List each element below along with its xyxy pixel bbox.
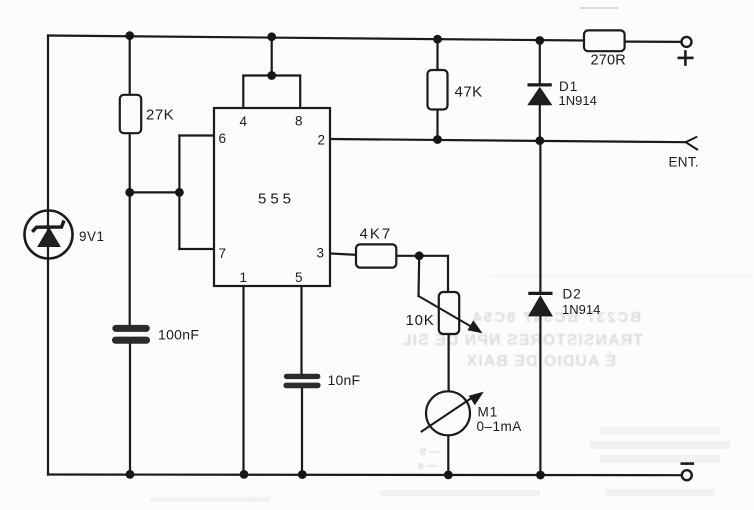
node: 4K7 / pot xyxy=(415,251,424,260)
node: bracket pins 4-8 xyxy=(267,71,276,80)
svg-text:100nF: 100nF xyxy=(158,327,199,343)
diode D2 1N914 xyxy=(528,287,600,317)
svg-text:4: 4 xyxy=(240,114,248,129)
wire: 555 top bracket pins 4 and 8 xyxy=(243,76,300,109)
wire: D2 column below to bottom rail xyxy=(539,316,541,475)
resistor R 47K xyxy=(428,70,483,110)
svg-text:10K: 10K xyxy=(406,312,435,329)
potentiometer 10K xyxy=(406,292,483,334)
svg-text:TRANSISTORES NPN DE SIL: TRANSISTORES NPN DE SIL xyxy=(401,332,643,349)
svg-text:10nF: 10nF xyxy=(328,372,361,388)
wire: 10nF to bottom rail xyxy=(301,388,303,475)
svg-text:1: 1 xyxy=(240,270,248,285)
svg-text:— 9: — 9 xyxy=(420,446,440,458)
svg-text:BC237 BC547 8C54: BC237 BC547 8C54 xyxy=(471,309,641,326)
wire: pin 5 column to 10nF xyxy=(300,286,302,374)
node: bottom rail / meter xyxy=(444,471,453,480)
node: bottom rail / 10nF xyxy=(298,470,307,479)
ENT. open arrowhead xyxy=(686,137,698,150)
wire: top rail xyxy=(48,36,584,41)
wire: ENT rail from pin 2 xyxy=(330,139,686,142)
svg-text:1N914: 1N914 xyxy=(559,93,597,108)
svg-text:M1: M1 xyxy=(478,405,499,420)
wire: 27K column below resistor to junction xyxy=(129,133,131,326)
svg-text:ENT.: ENT. xyxy=(669,155,699,170)
meter M1 xyxy=(421,391,522,435)
wire: junction link to pin6/pin7 riser xyxy=(130,191,180,193)
svg-text:555: 555 xyxy=(258,191,295,208)
node: top rail / 555 supply xyxy=(267,32,276,41)
wire: bottom rail xyxy=(48,473,682,476)
resistor R 4K7 xyxy=(356,226,396,268)
node: bottom rail / pin 1 xyxy=(240,470,249,479)
svg-text:27K: 27K xyxy=(146,107,174,124)
diode D1 1N914 xyxy=(528,79,597,108)
wire: junction to pot top xyxy=(419,256,448,292)
capacitor C 100nF xyxy=(112,325,199,344)
svg-text:9V1: 9V1 xyxy=(79,229,105,244)
svg-text:270R: 270R xyxy=(591,53,626,69)
resistor R 270R xyxy=(584,30,626,68)
svg-text:4K7: 4K7 xyxy=(360,226,393,243)
node: top rail / D1 xyxy=(535,36,544,45)
resistor R 27K xyxy=(120,95,174,133)
node: 27K column / link xyxy=(125,188,134,197)
node: ENT rail / D1-D2 xyxy=(535,136,544,145)
svg-text:8: 8 xyxy=(295,114,303,129)
faint scan dash top xyxy=(580,7,618,9)
wire: D2 column above xyxy=(539,141,541,294)
wire: D1 column above xyxy=(539,41,541,86)
wire: D1 column below xyxy=(539,105,541,141)
capacitor C 10nF xyxy=(283,372,360,388)
wire: 4K7 to junction xyxy=(396,255,419,257)
wire: pin 6 horizontal xyxy=(179,134,214,136)
wire: pin6/pin7 riser vertical xyxy=(178,136,180,250)
wire: pin 1 column to bottom rail xyxy=(242,286,244,475)
terminal + output xyxy=(678,37,694,66)
node: top rail / 27K xyxy=(125,31,134,40)
node: top rail / 47K xyxy=(433,35,442,44)
node: bottom rail / 100nF xyxy=(126,470,135,479)
svg-text:3: 3 xyxy=(317,246,325,261)
svg-text:1N914: 1N914 xyxy=(562,302,600,317)
svg-text:D1: D1 xyxy=(559,79,578,94)
svg-text:— a: — a xyxy=(417,460,438,472)
faint print bleed-through from reverse page (mirrored text) xyxy=(401,275,754,472)
svg-text:2: 2 xyxy=(318,133,326,148)
svg-text:6: 6 xyxy=(219,131,227,146)
node: bottom rail / D2 xyxy=(536,471,545,480)
wire: pin 7 horizontal xyxy=(179,248,214,250)
wire: 47K column bottom xyxy=(436,110,438,140)
wire: pot wiper drop xyxy=(417,256,420,296)
zener diode 9V1 xyxy=(25,211,105,259)
wire: top rail right of 270R to + terminal xyxy=(625,40,682,43)
node: ENT rail / 47K xyxy=(433,135,442,144)
svg-text:47K: 47K xyxy=(455,84,483,101)
svg-text:7: 7 xyxy=(219,246,227,261)
wire: 47K column top xyxy=(436,39,438,70)
wire: pin 3 to 4K7 xyxy=(330,254,356,255)
svg-text:5: 5 xyxy=(295,270,303,285)
wire: meter bottom to bottom rail xyxy=(447,435,449,475)
node: riser / link xyxy=(175,188,184,197)
svg-text:0–1mA: 0–1mA xyxy=(477,419,522,434)
wire: left rail vertical xyxy=(47,36,49,475)
wire: 27K column top xyxy=(129,36,131,95)
svg-text:D2: D2 xyxy=(563,287,582,302)
IC U1 555 xyxy=(214,108,330,286)
wire: pot bottom to meter xyxy=(448,334,450,392)
wire: 100nF to bottom rail xyxy=(129,344,131,475)
wire: bracket stub to top rail xyxy=(271,37,273,76)
terminal - output xyxy=(681,464,695,481)
